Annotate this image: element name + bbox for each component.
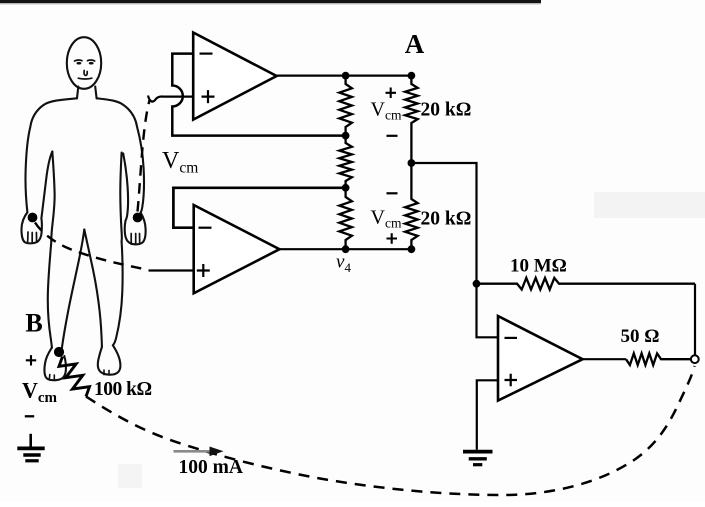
resistor buffer network middle (left chain) <box>339 136 352 188</box>
label - node B <box>25 415 34 417</box>
100 mA current direction arrow <box>174 447 224 457</box>
wire U1 non-inverting input <box>148 96 194 102</box>
wire U3 non-inverting to ground <box>477 380 498 450</box>
wire node between 20k resistors to U3 inverting input <box>411 163 498 337</box>
label + upper 20k <box>386 88 397 99</box>
wire U3 output <box>583 358 626 360</box>
node A junction <box>408 72 416 80</box>
node U1 output junction <box>342 72 350 80</box>
resistor 20 kOhm upper <box>405 76 418 163</box>
resistor 20 kOhm lower <box>405 163 418 249</box>
wire feedback down to output terminal <box>694 284 696 356</box>
label + lower 20k <box>387 233 398 244</box>
node lower 20k bottom junction <box>408 245 416 253</box>
node U1 feedback junction <box>342 132 350 140</box>
svg-text:50 Ω: 50 Ω <box>621 326 660 347</box>
ground symbol U3 <box>463 452 493 465</box>
resistor buffer network top (left chain) <box>339 76 352 136</box>
svg-text:B: B <box>25 309 42 338</box>
output terminal (open circle) <box>691 355 699 363</box>
svg-text:10 MΩ: 10 MΩ <box>510 256 567 277</box>
op-amp U1 <box>193 33 276 120</box>
wire U2 output to node v4 <box>280 248 412 250</box>
svg-text:20 kΩ: 20 kΩ <box>421 100 472 121</box>
resistor 100 kOhm <box>59 357 90 397</box>
svg-text:20 kΩ: 20 kΩ <box>421 209 472 230</box>
electrode right leg <box>54 347 64 357</box>
dashed lead wire right arm to op-amp U1 <box>138 100 150 212</box>
node U3 inverting input junction <box>473 280 481 288</box>
wire U2 inverting input bracket to node <box>173 188 345 228</box>
electrode right arm <box>133 213 143 223</box>
ground symbol node B <box>17 434 44 461</box>
wire U1 output to node A <box>277 74 412 76</box>
resistor 50 Ohm <box>626 353 691 365</box>
op-amp U3 <box>498 316 583 401</box>
svg-text:A: A <box>405 29 425 59</box>
node U2 feedback junction <box>342 184 350 192</box>
dashed right-leg drive wire (output terminal to 100 kOhm) <box>86 366 695 495</box>
node v4 junction <box>342 245 350 253</box>
op-amp U2 <box>194 205 280 293</box>
svg-text:100 kΩ: 100 kΩ <box>94 379 152 400</box>
label - upper 20k <box>387 135 398 137</box>
dashed lead wire left arm to op-amp U2 <box>35 223 149 270</box>
node between 20k resistors <box>408 159 416 167</box>
wire U2 non-inverting input <box>149 269 195 271</box>
label + node B <box>26 355 36 365</box>
label - lower 20k <box>387 192 398 194</box>
resistor 10 MOhm feedback <box>477 278 696 290</box>
wire U1 inverting input bracket to node <box>172 54 345 136</box>
svg-text:100 mA: 100 mA <box>179 457 243 478</box>
electrode left arm <box>28 213 38 223</box>
resistor buffer network bottom (left chain) <box>339 188 352 249</box>
patient body figure <box>21 37 145 380</box>
